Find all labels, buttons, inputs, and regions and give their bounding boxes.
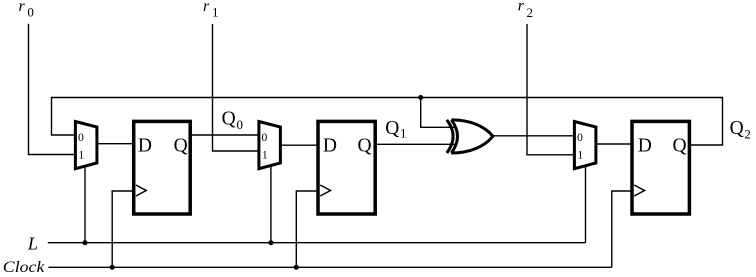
svg-text:Q: Q [385,118,399,139]
svg-text:Q: Q [358,135,372,156]
svg-text:D: D [638,135,652,156]
svg-text:0: 0 [237,117,244,132]
svg-text:Q: Q [730,118,744,139]
svg-text:D: D [323,135,337,156]
svg-text:0: 0 [262,131,268,144]
svg-text:2: 2 [527,5,534,20]
svg-text:2: 2 [744,126,751,141]
svg-text:L: L [27,234,38,254]
svg-text:1: 1 [400,126,407,141]
svg-text:0: 0 [577,131,583,144]
svg-text:1: 1 [212,5,219,20]
svg-text:D: D [138,135,152,156]
svg-text:Clock: Clock [3,259,46,276]
svg-text:Q: Q [222,109,236,130]
svg-text:Q: Q [673,135,687,156]
svg-text:Q: Q [174,135,188,156]
svg-text:r: r [19,0,26,15]
svg-text:1: 1 [78,149,84,162]
svg-text:r: r [518,0,525,15]
svg-text:r: r [203,0,210,15]
svg-text:1: 1 [577,149,583,162]
svg-text:0: 0 [78,131,84,144]
svg-text:0: 0 [27,5,34,20]
svg-text:1: 1 [262,149,268,162]
